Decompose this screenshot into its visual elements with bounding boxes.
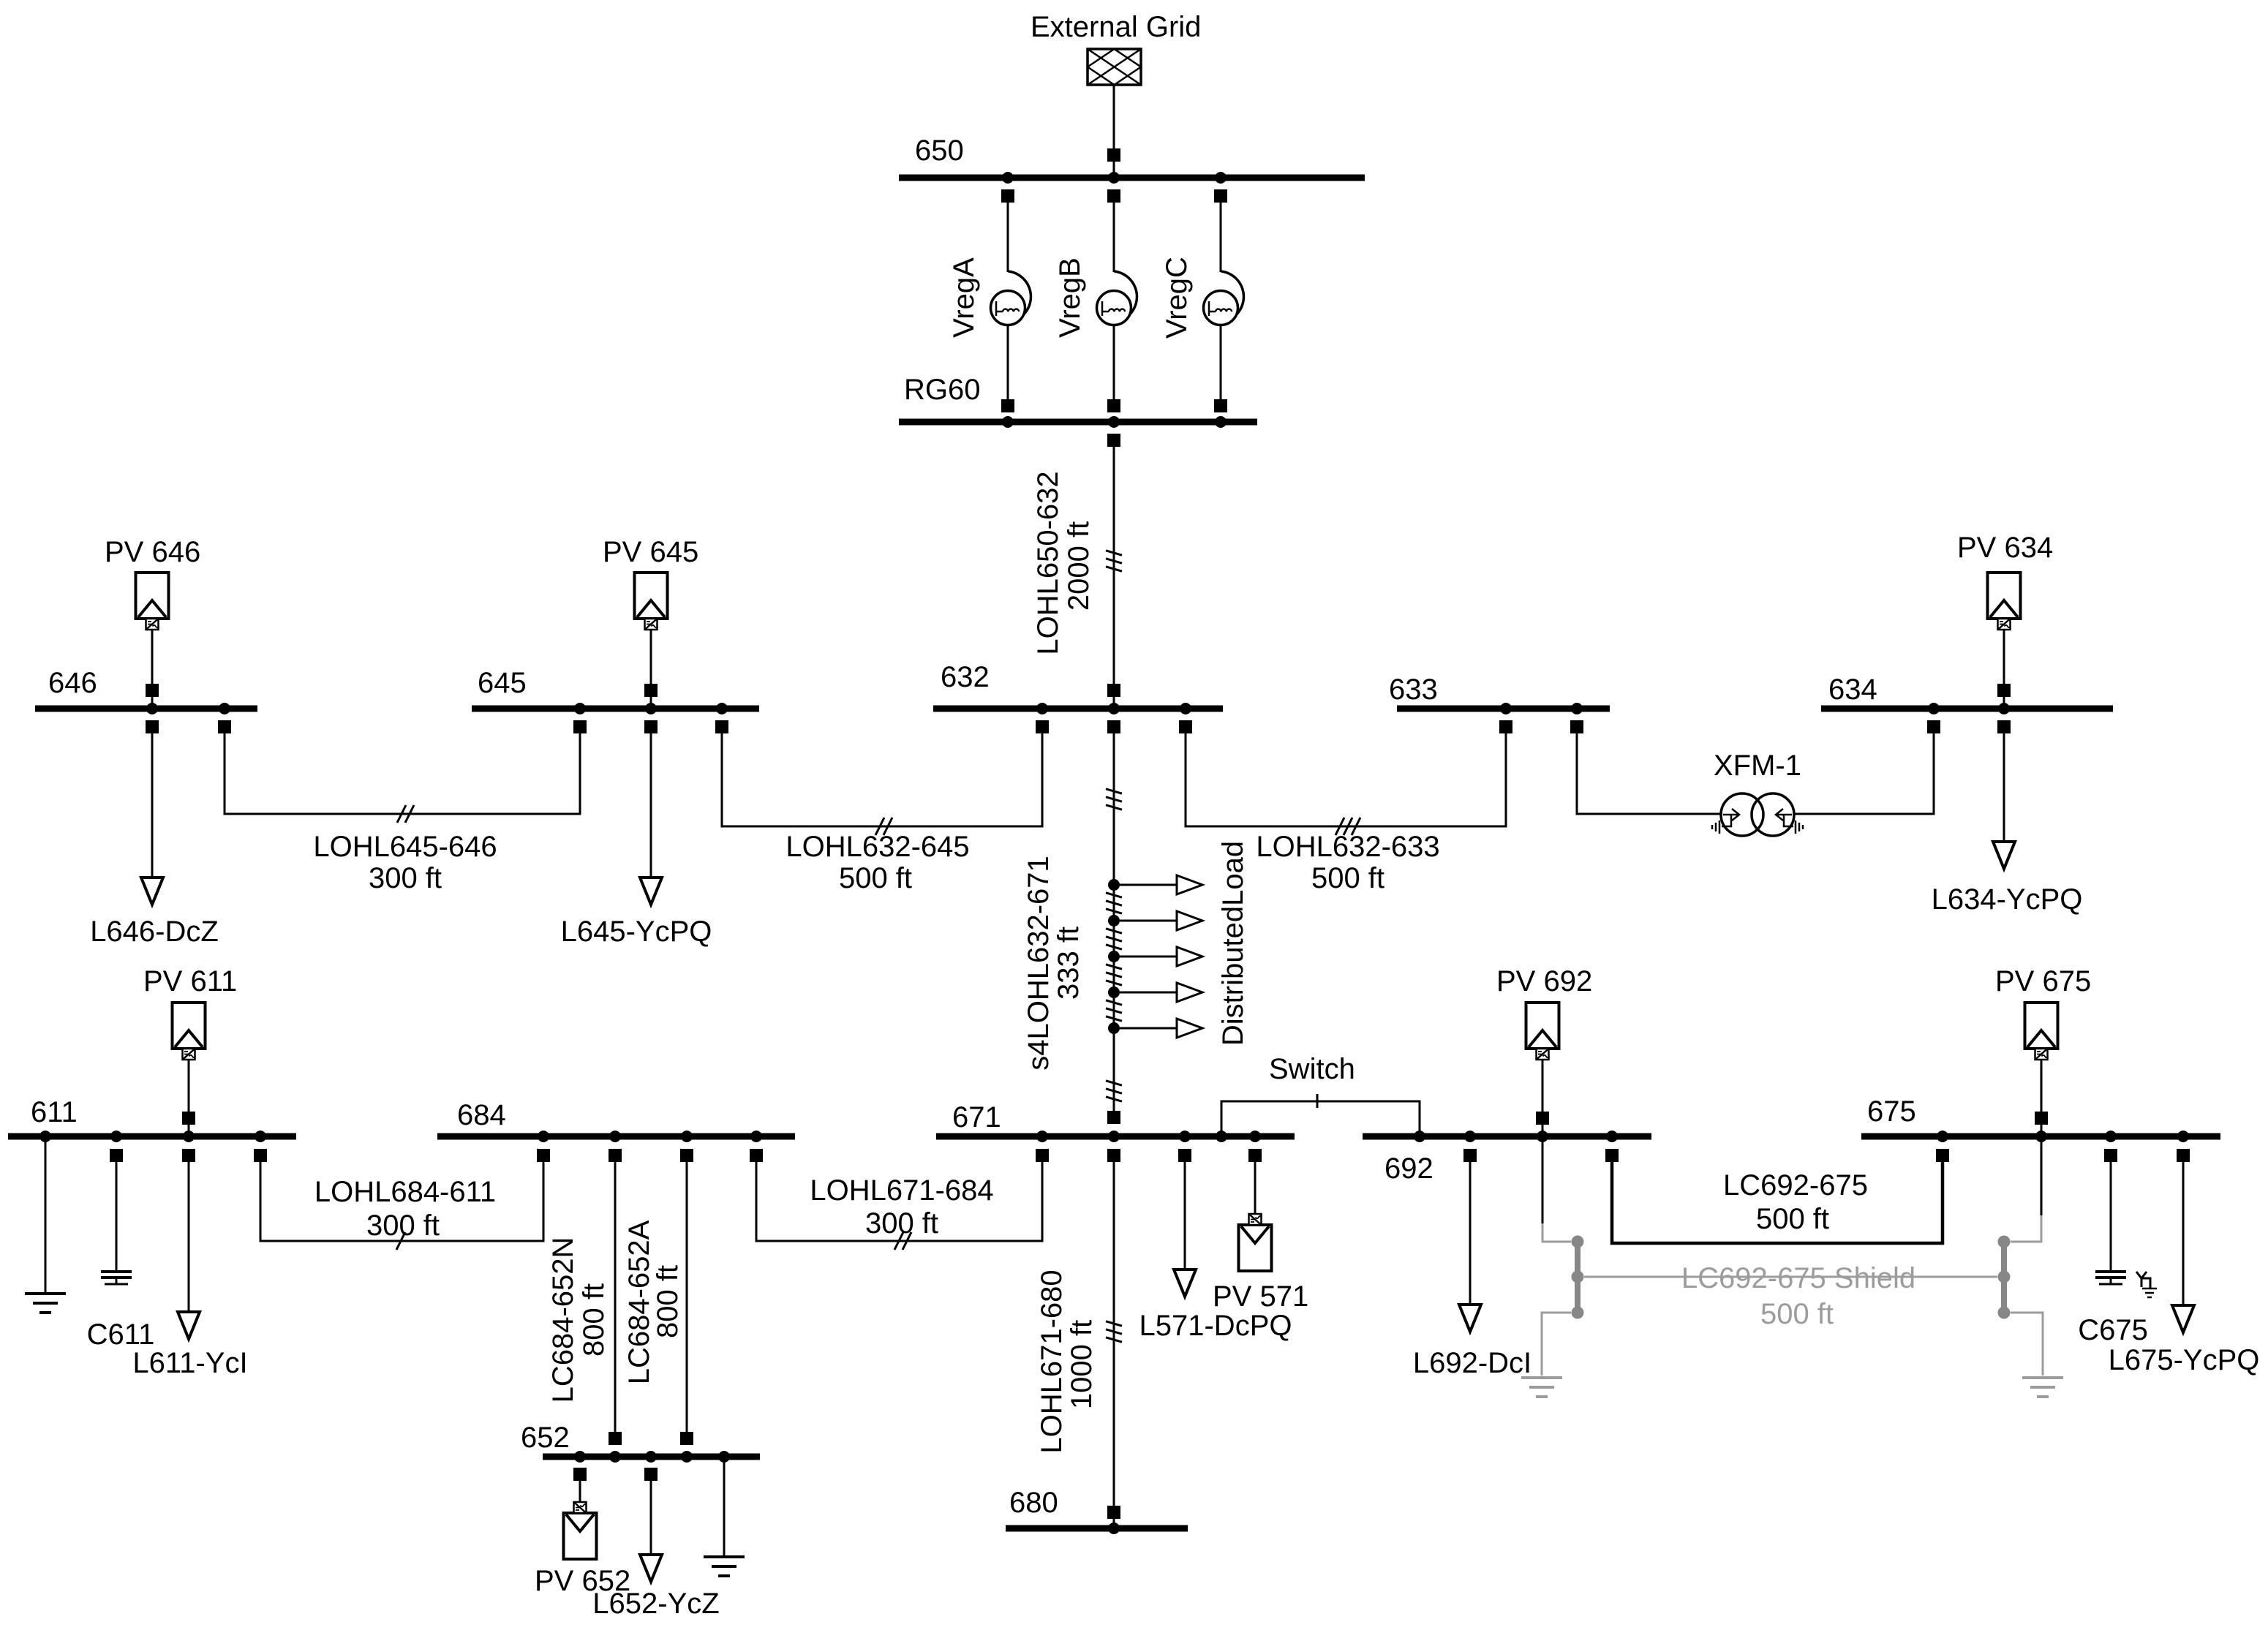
breaker square cable N top <box>609 1149 622 1162</box>
breaker square 671 main bottom <box>1107 1149 1120 1162</box>
capacitor C675 <box>2095 1162 2126 1284</box>
breaker square 632 to 633 <box>1179 720 1192 733</box>
breaker square load L571 <box>1178 1149 1191 1162</box>
node on bus 645 at PV <box>645 703 657 714</box>
breaker square cable A bottom <box>680 1432 693 1445</box>
wye earthing indicator C675 <box>2136 1272 2157 1297</box>
svg-text:500 ft: 500 ft <box>839 862 912 894</box>
node on bus 634 to XFM-1 <box>1928 703 1940 714</box>
svg-text:LC692-675 Shield: LC692-675 Shield <box>1681 1262 1915 1294</box>
breaker square 634 to XFM-1 <box>1927 720 1940 733</box>
svg-text:LOHL671-684: LOHL671-684 <box>810 1174 993 1207</box>
svg-text:PV 692: PV 692 <box>1496 965 1592 997</box>
node on RG60 at VregA <box>1002 416 1014 428</box>
svg-text:L571-DcPQ: L571-DcPQ <box>1139 1310 1292 1342</box>
label LC684-652A 800 ft <box>623 1220 684 1384</box>
node on bus 684 to 671 <box>750 1131 762 1142</box>
bus RG60 <box>899 419 1257 426</box>
load DistributedLoad arrow 5 <box>1108 1019 1202 1038</box>
breaker square 645 to 632 <box>715 720 728 733</box>
bus 675 <box>1861 1133 2220 1140</box>
node on RG60 at VregC <box>1215 416 1227 428</box>
svg-text:PV 611: PV 611 <box>143 965 237 997</box>
node on bus 652 PV <box>574 1451 586 1463</box>
bus 645 <box>472 706 759 712</box>
wire external grid to bus 650 <box>1113 85 1115 178</box>
svg-text:L634-YcPQ: L634-YcPQ <box>1932 883 2083 916</box>
bus 646 <box>35 706 257 712</box>
label s4LOHL632-671 333 ft <box>1022 856 1085 1071</box>
node on bus 652 load <box>645 1451 657 1463</box>
svg-text:684: 684 <box>457 1099 506 1131</box>
svg-text:L645-YcPQ: L645-YcPQ <box>561 916 712 948</box>
breaker square VregA bottom <box>1001 399 1014 412</box>
label LOHL671-684 300 ft <box>810 1174 993 1240</box>
svg-text:300 ft: 300 ft <box>366 1210 440 1242</box>
svg-text:500 ft: 500 ft <box>1311 862 1384 894</box>
breaker square VregC top <box>1214 189 1227 203</box>
breaker square PV 675 <box>2035 1112 2048 1125</box>
load L646-DcZ <box>141 733 163 905</box>
svg-text:LC684-652N: LC684-652N <box>547 1237 579 1403</box>
PV generator PV 692 <box>1526 1003 1559 1136</box>
breaker square load L645 <box>644 720 658 733</box>
breaker square 684 to 611 <box>537 1149 550 1162</box>
svg-text:645: 645 <box>478 667 527 699</box>
wire shield tap at 675 <box>2011 1140 2041 1242</box>
node on bus 684 to 611 <box>538 1131 549 1142</box>
ground at bus 652 <box>704 1460 745 1576</box>
transformer XFM-1 <box>1712 793 1803 836</box>
cable LC684-652A <box>686 1162 688 1432</box>
svg-text:650: 650 <box>915 135 964 167</box>
svg-text:C675: C675 <box>2078 1314 2148 1346</box>
load L692-DcI <box>1459 1162 1481 1332</box>
node on bus 675 C675 <box>2105 1131 2117 1142</box>
breaker square load L652 <box>644 1468 658 1481</box>
node on bus 684 cable A <box>681 1131 693 1142</box>
breaker square line LOHL650-632 bottom <box>1107 684 1120 697</box>
breaker square PV 571 <box>1248 1149 1262 1162</box>
line LOHL671-684 <box>756 1162 1042 1250</box>
node on bus 633 to XFM-1 <box>1571 703 1583 714</box>
node on bus 671 to 684 <box>1036 1131 1048 1142</box>
svg-text:300 ft: 300 ft <box>865 1207 938 1240</box>
svg-text:RG60: RG60 <box>904 374 981 406</box>
wire shield right to ground <box>2011 1313 2043 1376</box>
svg-text:671: 671 <box>952 1101 1001 1133</box>
node on bus 632 main <box>1108 703 1120 714</box>
svg-text:XFM-1: XFM-1 <box>1714 750 1801 782</box>
node on bus 671 switch <box>1216 1131 1227 1142</box>
wire shield tap at 692 <box>1542 1140 1571 1242</box>
bus 652 <box>543 1454 760 1460</box>
svg-text:PV 645: PV 645 <box>603 536 698 568</box>
bus 680 <box>1006 1525 1188 1532</box>
node on bus 632 to 645 <box>1036 703 1048 714</box>
svg-text:500 ft: 500 ft <box>1760 1298 1834 1330</box>
ground shield right <box>2022 1378 2063 1397</box>
svg-text:800 ft: 800 ft <box>578 1283 610 1357</box>
svg-text:PV 646: PV 646 <box>105 536 200 568</box>
svg-text:634: 634 <box>1828 673 1877 706</box>
bus 611 <box>8 1133 296 1140</box>
line s4LOHL632-671 <box>1106 733 1122 1112</box>
breaker square load L634 <box>1997 720 2011 733</box>
svg-text:L652-YcZ: L652-YcZ <box>592 1588 719 1620</box>
svg-text:PV 571: PV 571 <box>1213 1280 1308 1313</box>
breaker square C611 <box>110 1149 123 1162</box>
breaker square cable N bottom <box>609 1432 622 1445</box>
wire XFM-1 to 634 <box>1794 733 1934 814</box>
label LOHL650-632 2000 ft <box>1032 471 1095 654</box>
node on bus 692 switch <box>1414 1131 1425 1142</box>
svg-text:LOHL632-645: LOHL632-645 <box>785 831 969 863</box>
external grid symbol <box>1088 49 1141 85</box>
ground shield left <box>1521 1378 1562 1397</box>
svg-text:300 ft: 300 ft <box>369 862 442 894</box>
svg-text:L611-YcI: L611-YcI <box>132 1347 247 1379</box>
breaker square 645 to 646 <box>573 720 587 733</box>
load DistributedLoad arrow 2 <box>1108 911 1202 930</box>
breaker square cable LC692-675 left <box>1605 1149 1619 1162</box>
svg-text:646: 646 <box>48 667 97 699</box>
bus 650 <box>899 175 1365 181</box>
svg-text:L646-DcZ: L646-DcZ <box>90 916 219 948</box>
line LOHL684-611 <box>260 1162 543 1250</box>
label LC692-675 500 ft <box>1723 1169 1868 1235</box>
breaker square PV 646 <box>146 684 159 697</box>
load L645-YcPQ <box>640 733 662 905</box>
svg-text:LC692-675: LC692-675 <box>1723 1169 1868 1201</box>
node on bus 652 cable N <box>609 1451 621 1463</box>
node on bus 652 ground <box>718 1451 730 1463</box>
label LOHL632-645 500 ft <box>785 831 969 894</box>
svg-text:External Grid: External Grid <box>1031 11 1201 43</box>
shield riser right <box>1998 1236 2011 1319</box>
breaker square load L611 <box>182 1149 195 1162</box>
breaker square PV 692 <box>1536 1112 1549 1125</box>
label LOHL684-611 300 ft <box>314 1176 496 1242</box>
breaker square external grid <box>1107 148 1120 162</box>
breaker square VregB bottom <box>1107 399 1120 412</box>
node on bus 650 at VregA <box>1002 172 1014 184</box>
svg-text:PV 634: PV 634 <box>1957 532 2053 564</box>
PV generator PV 571 <box>1239 1162 1272 1271</box>
node on bus 684 cable N <box>609 1131 621 1142</box>
ground at bus 611 <box>25 1140 66 1313</box>
breaker square 632 main bottom <box>1107 720 1120 733</box>
label LC692-675 Shield 500 ft <box>1681 1262 1915 1330</box>
node on bus 632 to 633 <box>1180 703 1191 714</box>
bus 632 <box>933 706 1223 712</box>
line LOHL650-632 <box>1106 447 1122 709</box>
load L611-YcI <box>178 1162 200 1339</box>
bus 671 <box>936 1133 1295 1140</box>
node on bus 650 at VregC <box>1215 172 1227 184</box>
label LOHL632-633 500 ft <box>1256 831 1439 894</box>
breaker square 684 to 671 <box>750 1149 763 1162</box>
shield riser left <box>1572 1236 1584 1319</box>
node on bus 671 PV 571 <box>1249 1131 1261 1142</box>
node on bus 650 at VregB <box>1108 172 1120 184</box>
PV generator PV 646 <box>136 573 169 709</box>
label LOHL671-680 1000 ft <box>1036 1269 1098 1453</box>
svg-text:C611: C611 <box>87 1318 155 1351</box>
breaker square load L692 <box>1463 1149 1477 1162</box>
node on bus 671 load L571 <box>1179 1131 1191 1142</box>
line LOHL632-645 <box>722 733 1042 835</box>
breaker square 611 to 684 <box>254 1149 267 1162</box>
load L675-YcPQ <box>2172 1162 2194 1332</box>
cable LC684-652N <box>614 1162 617 1432</box>
svg-text:2000 ft: 2000 ft <box>1063 521 1095 611</box>
load L634-YcPQ <box>1993 733 2015 869</box>
breaker square VregC bottom <box>1214 399 1227 412</box>
breaker square load L646 <box>146 720 159 733</box>
PV generator PV 675 <box>2025 1003 2058 1136</box>
svg-text:LOHL632-633: LOHL632-633 <box>1256 831 1439 863</box>
load L571-DcPQ <box>1174 1162 1196 1297</box>
svg-text:675: 675 <box>1867 1095 1916 1128</box>
svg-text:L692-DcI: L692-DcI <box>1413 1347 1532 1379</box>
node on bus 652 cable A <box>681 1451 693 1463</box>
node on bus 675 PV <box>2035 1131 2047 1142</box>
bus 684 <box>437 1133 795 1140</box>
node on bus 692 PV <box>1537 1131 1548 1142</box>
svg-text:VregC: VregC <box>1161 257 1193 339</box>
cable LC692-675 <box>1612 1162 1943 1243</box>
svg-text:680: 680 <box>1009 1487 1058 1519</box>
node on bus 611 to 684 <box>255 1131 266 1142</box>
wire shield left to ground <box>1542 1313 1571 1376</box>
breaker square PV 634 <box>1997 684 2011 697</box>
breaker square 680 top <box>1107 1506 1120 1519</box>
svg-text:LOHL645-646: LOHL645-646 <box>313 831 497 863</box>
node on bus 645 to 632 <box>716 703 728 714</box>
breaker square PV 652 <box>573 1468 587 1481</box>
svg-text:652: 652 <box>521 1422 570 1454</box>
breaker square PV 645 <box>644 684 658 697</box>
node on bus 646 at PV <box>146 703 158 714</box>
capacitor C611 <box>101 1162 132 1284</box>
shield conductor LC692-675 Shield <box>1584 1276 1997 1278</box>
switch Switch <box>1221 1094 1420 1136</box>
svg-text:500 ft: 500 ft <box>1756 1203 1829 1235</box>
bus 692 <box>1363 1133 1651 1140</box>
PV generator PV 634 <box>1988 573 2021 709</box>
node on bus 675 load <box>2177 1131 2189 1142</box>
breaker square 633 to 632 <box>1499 720 1512 733</box>
svg-text:632: 632 <box>941 661 990 693</box>
svg-text:LC684-652A: LC684-652A <box>623 1220 655 1384</box>
node on bus 633 to 632 <box>1500 703 1512 714</box>
load L652-YcZ <box>640 1481 662 1582</box>
node on bus 645 to 646 <box>574 703 586 714</box>
breaker square 646 to 645 <box>218 720 231 733</box>
svg-text:DistributedLoad: DistributedLoad <box>1217 841 1249 1046</box>
breaker square s4LOHL632-671 bottom <box>1107 1111 1120 1124</box>
node on RG60 at VregB <box>1108 416 1120 428</box>
svg-text:800 ft: 800 ft <box>652 1265 684 1338</box>
node on bus 611 C611 <box>110 1131 122 1142</box>
PV generator PV 645 <box>635 573 668 709</box>
breaker square VregB top <box>1107 189 1120 203</box>
svg-text:LOHL650-632: LOHL650-632 <box>1032 471 1064 654</box>
svg-text:1000 ft: 1000 ft <box>1066 1320 1098 1409</box>
load DistributedLoad arrow 1 <box>1108 875 1202 894</box>
line LOHL645-646 <box>225 733 580 823</box>
breaker square line LOHL650-632 top <box>1107 434 1120 447</box>
bus 634 <box>1821 706 2113 712</box>
regulator VregB <box>1097 203 1137 399</box>
node on bus 611 PV <box>183 1131 195 1142</box>
label LOHL645-646 300 ft <box>313 831 497 894</box>
svg-text:611: 611 <box>31 1096 78 1128</box>
regulator VregA <box>991 203 1031 399</box>
svg-text:s4LOHL632-671: s4LOHL632-671 <box>1022 856 1055 1071</box>
line LOHL632-633 <box>1186 733 1506 835</box>
svg-text:333 ft: 333 ft <box>1052 927 1085 1000</box>
svg-text:LOHL671-680: LOHL671-680 <box>1036 1269 1068 1453</box>
breaker square VregA top <box>1001 189 1014 203</box>
PV generator PV 611 <box>173 1003 206 1136</box>
node on bus 646 to 645 <box>219 703 230 714</box>
svg-text:VregB: VregB <box>1054 257 1086 338</box>
breaker square load L675 <box>2177 1149 2190 1162</box>
breaker square PV 611 <box>182 1112 195 1125</box>
breaker square C675 <box>2104 1149 2117 1162</box>
regulator VregC <box>1204 203 1244 399</box>
svg-text:692: 692 <box>1384 1152 1433 1185</box>
svg-text:L675-YcPQ: L675-YcPQ <box>2109 1344 2260 1376</box>
node on bus 692 cable <box>1606 1131 1618 1142</box>
bus 633 <box>1397 706 1610 712</box>
PV generator PV 652 <box>564 1481 597 1559</box>
load DistributedLoad arrow 3 <box>1108 947 1202 966</box>
line LOHL671-680 <box>1106 1162 1122 1528</box>
node on bus 611 ground <box>39 1131 51 1142</box>
breaker square 671 to 684 <box>1036 1149 1049 1162</box>
svg-text:Switch: Switch <box>1269 1053 1355 1085</box>
node on bus 680 <box>1108 1523 1120 1534</box>
load DistributedLoad arrow 4 <box>1108 983 1202 1002</box>
breaker square cable LC692-675 right <box>1936 1149 1949 1162</box>
node on bus 671 main <box>1108 1131 1120 1142</box>
svg-text:VregA: VregA <box>948 257 980 338</box>
wire 633 to XFM-1 <box>1577 733 1721 814</box>
breaker square 633 to XFM-1 <box>1570 720 1583 733</box>
svg-text:633: 633 <box>1389 673 1438 706</box>
breaker square cable A top <box>680 1149 693 1162</box>
svg-text:LOHL684-611: LOHL684-611 <box>314 1176 496 1208</box>
node on bus 675 cable <box>1937 1131 1948 1142</box>
svg-text:PV 675: PV 675 <box>1995 965 2091 997</box>
node on bus 692 load <box>1464 1131 1476 1142</box>
breaker square 632 to 645 <box>1036 720 1049 733</box>
node on bus 634 at PV <box>1998 703 2010 714</box>
label LC684-652N 800 ft <box>547 1237 610 1403</box>
